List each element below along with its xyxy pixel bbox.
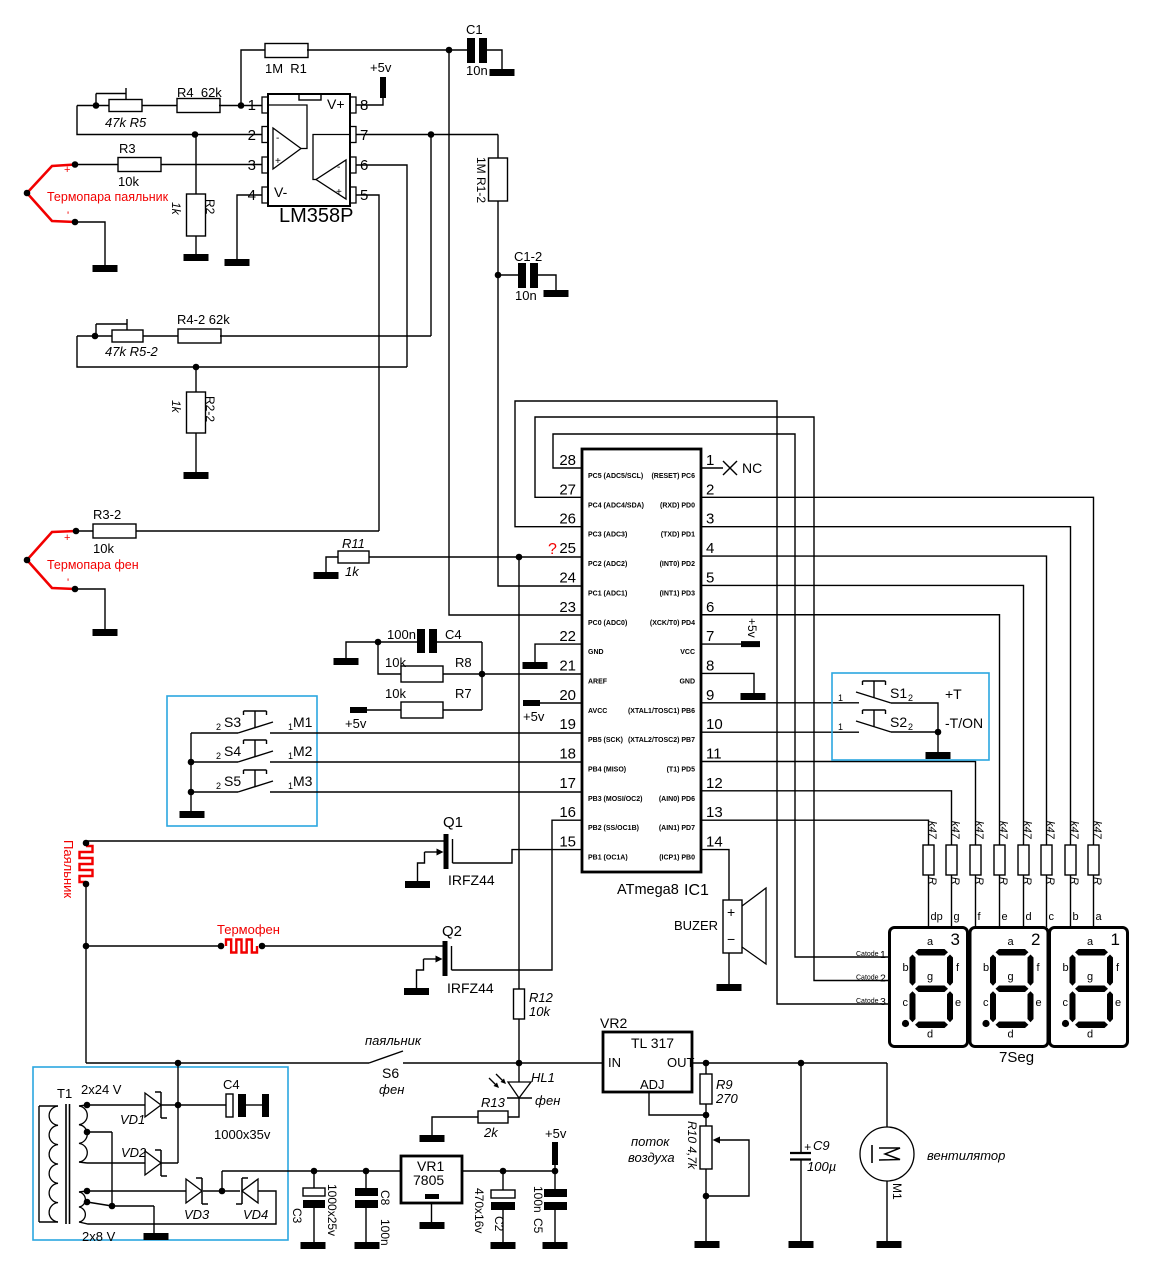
- svg-text:T1: T1: [57, 1086, 72, 1101]
- svg-text:R10 4,7k: R10 4,7k: [685, 1121, 699, 1170]
- svg-text:R4-2 62k: R4-2 62k: [177, 312, 230, 327]
- svg-text:+: +: [64, 532, 70, 544]
- svg-text:-T/ON: -T/ON: [945, 715, 983, 731]
- svg-text:(RESET) PC6: (RESET) PC6: [651, 473, 695, 480]
- svg-text:2: 2: [908, 722, 913, 732]
- svg-text:-: -: [337, 162, 340, 173]
- svg-text:10k: 10k: [93, 541, 114, 556]
- svg-text:R2: R2: [203, 199, 217, 215]
- svg-text:1M R1-2: 1M R1-2: [474, 157, 488, 203]
- svg-text:S4: S4: [224, 743, 241, 759]
- svg-text:2: 2: [908, 693, 913, 703]
- svg-text:b: b: [903, 962, 909, 974]
- svg-text:c: c: [903, 997, 909, 1009]
- svg-text:k47: k47: [1044, 821, 1056, 840]
- svg-text:26: 26: [559, 511, 576, 528]
- svg-text:19: 19: [559, 716, 576, 733]
- svg-text:10: 10: [706, 716, 723, 733]
- svg-text:AVCC: AVCC: [588, 708, 607, 715]
- svg-text:3: 3: [706, 511, 714, 528]
- svg-text:a: a: [1087, 936, 1094, 948]
- svg-text:e: e: [1036, 997, 1042, 1009]
- svg-text:Q2: Q2: [442, 923, 462, 940]
- svg-text:S1: S1: [890, 685, 907, 701]
- svg-text:': ': [67, 577, 69, 589]
- svg-text:VD2: VD2: [121, 1145, 147, 1160]
- svg-text:R12: R12: [529, 990, 554, 1005]
- svg-text:R3: R3: [119, 141, 136, 156]
- svg-text:1: 1: [288, 781, 293, 791]
- svg-text:1k: 1k: [169, 400, 183, 414]
- svg-text:10k: 10k: [529, 1004, 551, 1019]
- svg-text:PC5 (ADC5/SCL): PC5 (ADC5/SCL): [588, 473, 643, 480]
- svg-text:(ICP1) PB0: (ICP1) PB0: [659, 855, 695, 862]
- svg-text:PC1 (ADC1): PC1 (ADC1): [588, 590, 627, 597]
- svg-text:S3: S3: [224, 714, 241, 730]
- svg-text:b: b: [983, 962, 989, 974]
- svg-text:7: 7: [360, 127, 368, 144]
- svg-text:1: 1: [838, 722, 843, 732]
- svg-text:3: 3: [880, 996, 886, 1008]
- svg-text:PB3 (MOSI/OC2): PB3 (MOSI/OC2): [588, 796, 642, 803]
- svg-text:10n: 10n: [515, 288, 537, 303]
- svg-text:1000x25v: 1000x25v: [325, 1184, 339, 1236]
- svg-text:фен: фен: [379, 1082, 404, 1097]
- svg-text:10k: 10k: [385, 686, 406, 701]
- svg-text:(XCK/T0) PD4: (XCK/T0) PD4: [650, 620, 695, 627]
- svg-text:PC3 (ADC3): PC3 (ADC3): [588, 532, 627, 539]
- svg-text:4: 4: [706, 540, 714, 557]
- svg-text:100µ: 100µ: [807, 1159, 836, 1174]
- svg-text:28: 28: [559, 452, 576, 469]
- svg-text:PB1 (OC1A): PB1 (OC1A): [588, 855, 628, 862]
- svg-text:PB4 (MISO): PB4 (MISO): [588, 767, 626, 774]
- svg-text:+: +: [727, 904, 735, 920]
- svg-text:c: c: [983, 997, 989, 1009]
- svg-text:V-: V-: [274, 184, 288, 200]
- svg-text:100n: 100n: [531, 1186, 545, 1213]
- svg-text:15: 15: [559, 834, 576, 851]
- svg-text:R2-2: R2-2: [203, 396, 217, 422]
- svg-text:PB2 (SS/OC1B): PB2 (SS/OC1B): [588, 825, 639, 832]
- svg-text:LM358P: LM358P: [279, 205, 354, 227]
- svg-text:12: 12: [706, 775, 723, 792]
- svg-text:d: d: [1026, 911, 1032, 923]
- svg-text:+: +: [64, 164, 70, 176]
- svg-text:S5: S5: [224, 773, 241, 789]
- svg-text:8: 8: [706, 657, 714, 674]
- svg-text:1: 1: [1111, 930, 1120, 949]
- svg-text:(XTAL2/TOSC2) PB7: (XTAL2/TOSC2) PB7: [628, 737, 695, 744]
- svg-text:100n: 100n: [387, 627, 416, 642]
- svg-text:14: 14: [706, 834, 723, 851]
- svg-text:1: 1: [248, 97, 256, 114]
- svg-text:16: 16: [559, 804, 576, 821]
- svg-text:e: e: [1115, 997, 1121, 1009]
- svg-text:1k: 1k: [169, 202, 183, 216]
- svg-text:M1: M1: [293, 714, 313, 730]
- svg-text:e: e: [955, 997, 961, 1009]
- svg-text:M3: M3: [293, 773, 313, 789]
- svg-text:R9: R9: [716, 1077, 733, 1092]
- svg-text:5: 5: [706, 569, 714, 586]
- svg-text:47k R5: 47k R5: [105, 115, 147, 130]
- svg-text:c: c: [1049, 911, 1055, 923]
- svg-text:VD1: VD1: [120, 1112, 145, 1127]
- svg-text:V+: V+: [327, 96, 345, 112]
- svg-text:M2: M2: [293, 743, 313, 759]
- svg-text:b: b: [1073, 911, 1079, 923]
- svg-text:a: a: [1096, 911, 1103, 923]
- svg-text:11: 11: [706, 746, 722, 763]
- svg-text:+: +: [275, 156, 281, 167]
- svg-text:9: 9: [706, 687, 714, 704]
- svg-text:(XTAL1/TOSC1) PB6: (XTAL1/TOSC1) PB6: [628, 708, 695, 715]
- svg-text:C4: C4: [445, 627, 462, 642]
- svg-text:IRFZ44: IRFZ44: [448, 872, 495, 888]
- svg-text:': ': [67, 210, 69, 222]
- svg-text:(TXD) PD1: (TXD) PD1: [661, 532, 695, 539]
- svg-text:(INT0) PD2: (INT0) PD2: [660, 561, 696, 568]
- svg-text:k47: k47: [997, 821, 1009, 840]
- svg-text:2: 2: [1031, 930, 1040, 949]
- svg-text:+: +: [804, 1140, 811, 1154]
- svg-text:1: 1: [838, 693, 843, 703]
- svg-text:e: e: [1002, 911, 1008, 923]
- svg-text:c: c: [1063, 997, 1069, 1009]
- svg-text:g: g: [1087, 971, 1093, 983]
- svg-text:100n: 100n: [378, 1219, 392, 1246]
- svg-text:C8: C8: [378, 1190, 392, 1206]
- svg-text:2: 2: [248, 127, 256, 144]
- svg-text:Catode: Catode: [856, 998, 879, 1005]
- svg-text:g: g: [927, 971, 933, 983]
- svg-text:27: 27: [559, 481, 576, 498]
- svg-text:Catode: Catode: [856, 951, 879, 958]
- svg-text:C4: C4: [223, 1077, 240, 1092]
- svg-text:21: 21: [559, 657, 576, 674]
- svg-text:dp: dp: [931, 911, 943, 923]
- svg-text:1M R1: 1M R1: [265, 61, 307, 76]
- svg-text:-: -: [276, 133, 279, 144]
- svg-text:25: 25: [559, 540, 576, 557]
- svg-text:3: 3: [248, 157, 256, 174]
- svg-text:S2: S2: [890, 714, 907, 730]
- svg-text:+: +: [336, 187, 342, 198]
- svg-text:+5v: +5v: [345, 716, 367, 731]
- svg-text:?: ?: [548, 541, 557, 558]
- svg-text:−: −: [727, 931, 735, 947]
- svg-text:Термофен: Термофен: [217, 922, 280, 937]
- svg-text:23: 23: [559, 599, 576, 616]
- svg-text:C2: C2: [492, 1216, 506, 1232]
- svg-text:IN: IN: [608, 1055, 621, 1070]
- svg-text:13: 13: [706, 804, 723, 821]
- svg-text:1: 1: [288, 751, 293, 761]
- svg-text:a: a: [1008, 936, 1015, 948]
- svg-text:10k: 10k: [385, 655, 406, 670]
- svg-text:VD4: VD4: [243, 1207, 268, 1222]
- svg-text:2: 2: [706, 481, 714, 498]
- svg-text:PC4 (ADC4/SDA): PC4 (ADC4/SDA): [588, 502, 644, 509]
- svg-text:IC1: IC1: [684, 882, 709, 899]
- svg-text:Q1: Q1: [443, 814, 463, 831]
- svg-text:2: 2: [216, 722, 221, 732]
- svg-text:2: 2: [880, 973, 886, 985]
- svg-text:k47: k47: [1091, 821, 1103, 840]
- svg-text:47k R5-2: 47k R5-2: [105, 344, 159, 359]
- svg-text:+T: +T: [945, 686, 962, 702]
- svg-text:270: 270: [715, 1091, 738, 1106]
- svg-text:22: 22: [559, 628, 576, 645]
- svg-text:17: 17: [559, 775, 576, 792]
- svg-text:AREF: AREF: [588, 678, 608, 685]
- svg-text:1k: 1k: [345, 564, 360, 579]
- svg-text:7Seg: 7Seg: [999, 1049, 1034, 1066]
- svg-text:R13: R13: [481, 1095, 506, 1110]
- svg-text:ADJ: ADJ: [640, 1077, 665, 1092]
- svg-text:VCC: VCC: [680, 649, 695, 656]
- svg-text:1: 1: [880, 949, 886, 961]
- svg-text:k47: k47: [1021, 821, 1033, 840]
- svg-text:470x16v: 470x16v: [472, 1188, 486, 1233]
- svg-text:18: 18: [559, 746, 576, 763]
- svg-text:3: 3: [951, 930, 960, 949]
- svg-text:1: 1: [288, 722, 293, 732]
- svg-text:(AIN1) PD7: (AIN1) PD7: [659, 825, 695, 832]
- svg-text:GND: GND: [588, 649, 604, 656]
- svg-text:1: 1: [706, 452, 714, 469]
- svg-text:(AIN0) PD6: (AIN0) PD6: [659, 796, 695, 803]
- svg-text:(INT1) PD3: (INT1) PD3: [660, 590, 696, 597]
- svg-text:S6: S6: [382, 1065, 399, 1081]
- svg-text:+5v: +5v: [523, 709, 545, 724]
- svg-text:8: 8: [360, 97, 368, 114]
- svg-text:(T1) PD5: (T1) PD5: [667, 767, 696, 774]
- svg-text:(RXD) PD0: (RXD) PD0: [660, 502, 695, 509]
- svg-text:d: d: [927, 1029, 933, 1041]
- svg-text:b: b: [1063, 962, 1069, 974]
- svg-text:VD3: VD3: [184, 1207, 210, 1222]
- svg-text:2k: 2k: [483, 1125, 499, 1140]
- svg-text:+5v: +5v: [370, 60, 392, 75]
- svg-text:фен: фен: [535, 1093, 560, 1108]
- svg-text:2x8 V: 2x8 V: [82, 1229, 116, 1244]
- svg-text:4: 4: [248, 187, 256, 204]
- svg-text:20: 20: [559, 687, 576, 704]
- svg-text:VR2: VR2: [600, 1015, 627, 1031]
- svg-text:R8: R8: [455, 655, 472, 670]
- svg-text:Термопара фен: Термопара фен: [47, 558, 139, 572]
- svg-text:24: 24: [559, 569, 576, 586]
- svg-text:BUZER: BUZER: [674, 918, 718, 933]
- svg-text:IRFZ44: IRFZ44: [447, 980, 494, 996]
- svg-text:2: 2: [216, 781, 221, 791]
- svg-text:g: g: [954, 911, 960, 923]
- svg-text:a: a: [927, 936, 934, 948]
- svg-text:C9: C9: [813, 1138, 830, 1153]
- svg-text:k47: k47: [1068, 821, 1080, 840]
- svg-text:C1: C1: [466, 22, 483, 37]
- svg-text:Catode: Catode: [856, 975, 879, 982]
- svg-text:+5v: +5v: [545, 1126, 567, 1141]
- svg-text:вентилятор: вентилятор: [927, 1148, 1005, 1163]
- svg-text:k47: k47: [949, 821, 961, 840]
- svg-text:2x24 V: 2x24 V: [81, 1082, 122, 1097]
- svg-text:k47: k47: [973, 821, 985, 840]
- svg-text:7805: 7805: [413, 1172, 444, 1188]
- svg-text:10k: 10k: [118, 174, 139, 189]
- svg-text:7: 7: [706, 628, 714, 645]
- svg-text:паяльник: паяльник: [365, 1033, 422, 1048]
- svg-text:R3-2: R3-2: [93, 507, 121, 522]
- svg-text:2: 2: [216, 751, 221, 761]
- svg-text:C1-2: C1-2: [514, 249, 542, 264]
- svg-text:d: d: [1008, 1029, 1014, 1041]
- svg-text:M1: M1: [890, 1183, 904, 1200]
- svg-text:10n: 10n: [466, 63, 488, 78]
- svg-text:PC0 (ADC0): PC0 (ADC0): [588, 620, 627, 627]
- svg-text:d: d: [1087, 1029, 1093, 1041]
- svg-text:NC: NC: [742, 460, 762, 476]
- svg-text:OUT: OUT: [667, 1055, 695, 1070]
- svg-text:HL1: HL1: [531, 1070, 555, 1085]
- svg-text:R11: R11: [342, 536, 365, 551]
- svg-text:PC2 (ADC2): PC2 (ADC2): [588, 561, 627, 568]
- svg-text:поток: поток: [631, 1134, 670, 1149]
- svg-text:PB5 (SCK): PB5 (SCK): [588, 737, 623, 744]
- svg-text:воздуха: воздуха: [628, 1150, 675, 1165]
- svg-text:k47: k47: [926, 821, 938, 840]
- svg-text:ATmega8: ATmega8: [617, 882, 679, 898]
- svg-text:R7: R7: [455, 686, 472, 701]
- svg-text:GND: GND: [679, 678, 695, 685]
- svg-text:g: g: [1008, 971, 1014, 983]
- svg-text:Паяльник: Паяльник: [61, 840, 76, 898]
- svg-text:C3: C3: [290, 1208, 304, 1224]
- svg-text:+5v: +5v: [745, 618, 759, 638]
- svg-text:6: 6: [706, 599, 714, 616]
- svg-text:C5: C5: [531, 1218, 545, 1234]
- svg-text:R4 62k: R4 62k: [177, 85, 222, 100]
- svg-text:1000x35v: 1000x35v: [214, 1127, 271, 1142]
- svg-text:Термопара паяльник: Термопара паяльник: [47, 190, 169, 204]
- svg-text:TL 317: TL 317: [631, 1035, 674, 1051]
